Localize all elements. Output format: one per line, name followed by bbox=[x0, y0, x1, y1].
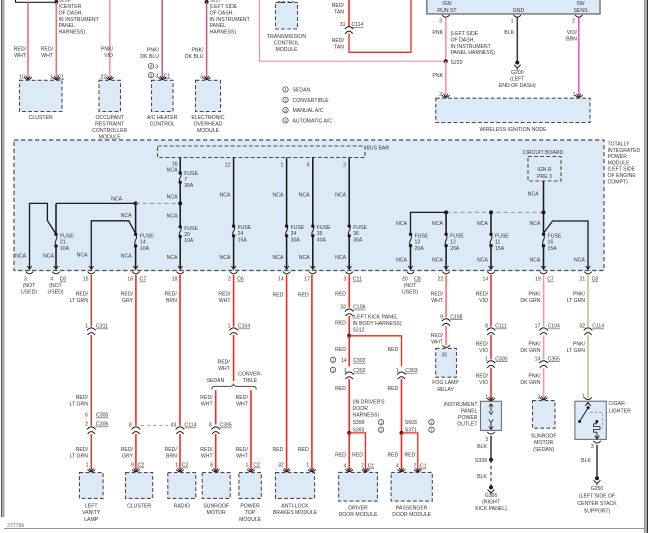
wire RED driver door pin 4 bbox=[348, 433, 350, 471]
wire fuse 12 down bbox=[445, 246, 447, 269]
wire BLK cigar lighter to ground bbox=[596, 445, 598, 477]
svg-text:DK BLU: DK BLU bbox=[185, 54, 204, 60]
cigar lighter link dashed bbox=[590, 412, 603, 428]
svg-text:2: 2 bbox=[228, 277, 231, 283]
svg-text:GRY: GRY bbox=[122, 298, 134, 304]
legend 3 MANUAL A/C bbox=[283, 107, 288, 112]
svg-text:3: 3 bbox=[439, 19, 442, 25]
svg-text:PNK: PNK bbox=[432, 30, 443, 36]
svg-text:9: 9 bbox=[440, 314, 443, 320]
wire RED/WHT to cluster pin 10 bbox=[27, 2, 29, 78]
wire BLK dashed to ground bbox=[490, 460, 492, 486]
svg-text:SUNROOF: SUNROOF bbox=[531, 434, 557, 440]
splice S230 bbox=[54, 0, 58, 4]
svg-text:NCA: NCA bbox=[477, 257, 488, 263]
svg-text:VIO: VIO bbox=[479, 348, 488, 354]
svg-text:LEFT: LEFT bbox=[85, 504, 98, 510]
svg-text:13: 13 bbox=[415, 240, 421, 246]
fuse F11 15A bbox=[489, 233, 492, 236]
svg-text:1: 1 bbox=[281, 162, 284, 168]
svg-text:20: 20 bbox=[402, 277, 408, 283]
svg-text:PNK/: PNK/ bbox=[101, 47, 114, 53]
TIPM pin 16 C7 bbox=[132, 272, 140, 274]
wire bus bar to fuse 36 bbox=[348, 158, 350, 226]
svg-text:9: 9 bbox=[131, 463, 134, 469]
relay FOG LAMP RELAY bbox=[436, 348, 457, 377]
svg-text:SUNROOF: SUNROOF bbox=[203, 504, 229, 510]
svg-text:3: 3 bbox=[439, 92, 442, 98]
split brace sedan/convertible bbox=[212, 384, 257, 390]
svg-text:C300: C300 bbox=[495, 356, 507, 362]
svg-text:3: 3 bbox=[155, 64, 158, 70]
svg-text:(LEFT KICK PANEL: (LEFT KICK PANEL bbox=[353, 314, 399, 320]
svg-text:C355: C355 bbox=[548, 356, 560, 362]
svg-text:TAN: TAN bbox=[334, 10, 344, 16]
svg-text:NCA: NCA bbox=[273, 255, 284, 261]
ground G306 bbox=[489, 485, 493, 489]
wire VIO/BRN to WIN pin 1 bbox=[578, 18, 580, 97]
svg-text:14: 14 bbox=[482, 277, 488, 283]
svg-text:C111: C111 bbox=[495, 324, 507, 330]
svg-text:PANEL: PANEL bbox=[461, 409, 478, 415]
svg-text:C1: C1 bbox=[420, 464, 427, 470]
svg-text:2: 2 bbox=[343, 162, 346, 168]
svg-text:1: 1 bbox=[573, 92, 576, 98]
svg-text:NCA: NCA bbox=[15, 253, 26, 259]
wire fuse 21 to pin 4 bbox=[55, 246, 57, 269]
svg-text:1: 1 bbox=[246, 463, 249, 469]
svg-text:RED: RED bbox=[352, 453, 363, 459]
module ELECTRONIC OVERHEAD MODULE bbox=[196, 80, 221, 111]
wire bus bar to fuse 34 bbox=[286, 158, 288, 226]
svg-text:SW: SW bbox=[576, 1, 584, 7]
svg-text:NCA: NCA bbox=[121, 253, 132, 259]
splice S220 bbox=[444, 59, 448, 63]
svg-text:USED): USED) bbox=[48, 290, 64, 296]
svg-text:PRE 3: PRE 3 bbox=[537, 174, 552, 180]
svg-text:(CENTER: (CENTER bbox=[59, 4, 82, 10]
pin 3 automatic a/c bbox=[148, 63, 153, 68]
svg-text:WIRELESS IGNITION NODE: WIRELESS IGNITION NODE bbox=[479, 127, 547, 133]
module CIGAR LIGHTER bbox=[575, 401, 606, 439]
svg-text:C7: C7 bbox=[547, 277, 554, 283]
svg-text:C302: C302 bbox=[353, 368, 365, 374]
svg-text:CONVER-: CONVER- bbox=[238, 372, 262, 378]
svg-text:3: 3 bbox=[485, 437, 488, 443]
svg-text:WHT: WHT bbox=[14, 53, 27, 59]
svg-text:RED/: RED/ bbox=[121, 447, 134, 453]
svg-text:RED: RED bbox=[298, 447, 309, 453]
svg-text:1: 1 bbox=[86, 463, 89, 469]
svg-text:WHT: WHT bbox=[219, 298, 232, 304]
power outlet contacts bbox=[490, 405, 492, 412]
svg-text:RED: RED bbox=[335, 347, 346, 353]
svg-text:6: 6 bbox=[307, 162, 310, 168]
wire fuse 11 down bbox=[490, 246, 492, 269]
svg-text:TAN: TAN bbox=[334, 45, 344, 51]
svg-text:40A: 40A bbox=[317, 237, 327, 243]
svg-text:RED: RED bbox=[273, 447, 284, 453]
svg-text:1: 1 bbox=[306, 463, 309, 469]
wire RED/GRY from pin 16 bbox=[135, 275, 137, 426]
wire RED/WHT from pin 22 bbox=[445, 275, 447, 318]
svg-text:14: 14 bbox=[278, 277, 284, 283]
svg-text:DRIVER: DRIVER bbox=[348, 505, 368, 511]
svg-text:DK BLU: DK BLU bbox=[140, 54, 159, 60]
svg-text:TIBLE: TIBLE bbox=[243, 378, 258, 384]
svg-text:20A: 20A bbox=[415, 246, 425, 252]
svg-text:4: 4 bbox=[50, 277, 53, 283]
svg-text:4: 4 bbox=[396, 464, 399, 470]
svg-text:1: 1 bbox=[85, 324, 88, 330]
svg-text:(LEFT: (LEFT bbox=[510, 76, 525, 82]
module TOTALLY INTEGRATED POWER MODULE bbox=[14, 140, 604, 271]
TIPM pin 19 C7 bbox=[540, 272, 548, 274]
svg-text:RED/: RED/ bbox=[76, 447, 89, 453]
svg-text:G306: G306 bbox=[485, 493, 498, 499]
svg-text:NCA: NCA bbox=[273, 193, 284, 199]
svg-text:WHT: WHT bbox=[201, 401, 214, 407]
svg-text:3: 3 bbox=[591, 444, 594, 450]
svg-text:10A: 10A bbox=[60, 246, 70, 252]
svg-text:INTEGRATED: INTEGRATED bbox=[608, 148, 641, 154]
node junction dot fuse 20 bbox=[178, 201, 182, 205]
wire fuse 16 to pin 19 bbox=[543, 246, 545, 269]
relay IGN R PRE 3 bbox=[528, 157, 561, 182]
svg-text:10A: 10A bbox=[184, 238, 194, 244]
svg-text:NCA: NCA bbox=[528, 191, 539, 197]
svg-text:NCA: NCA bbox=[529, 221, 540, 227]
svg-text:8: 8 bbox=[129, 423, 132, 429]
svg-text:C114: C114 bbox=[352, 22, 364, 28]
svg-text:RED/: RED/ bbox=[332, 3, 345, 9]
svg-text:32: 32 bbox=[278, 463, 284, 469]
svg-text:(SEDAN): (SEDAN) bbox=[533, 447, 554, 453]
svg-text:IGN: IGN bbox=[442, 1, 451, 7]
svg-text:NCA: NCA bbox=[121, 213, 132, 219]
svg-text:G200: G200 bbox=[511, 70, 524, 76]
svg-text:PNK/: PNK/ bbox=[147, 48, 160, 54]
wire RED/LT GRN bbox=[90, 335, 92, 426]
svg-text:A/C HEATER: A/C HEATER bbox=[147, 115, 178, 121]
wire RED/WHT from pin 2 C6 bbox=[233, 275, 235, 327]
pin 3 C1 manual a/c bbox=[148, 73, 153, 78]
svg-text:RED: RED bbox=[404, 453, 415, 459]
svg-text:20A: 20A bbox=[450, 246, 460, 252]
TIPM pin 14 bbox=[487, 272, 495, 274]
svg-text:IN INSTRUMENT: IN INSTRUMENT bbox=[451, 44, 492, 50]
wire from IGN R PRE 3 bbox=[543, 181, 545, 212]
module SUNROOF MOTOR bbox=[202, 473, 230, 499]
TIPM pin 18 bbox=[176, 272, 184, 274]
svg-text:USED): USED) bbox=[402, 290, 418, 296]
power outlet bottom exit pin 3 bbox=[487, 432, 495, 434]
svg-text:KICK PANEL): KICK PANEL) bbox=[475, 506, 507, 512]
wire fuse 24 to pin 2 bbox=[233, 236, 235, 269]
svg-text:11: 11 bbox=[495, 240, 500, 246]
svg-text:IN INSTRUMENT: IN INSTRUMENT bbox=[210, 17, 251, 23]
ground G250 bbox=[595, 476, 599, 480]
fuse F34 30A bbox=[285, 224, 288, 227]
svg-text:21: 21 bbox=[60, 240, 66, 246]
cigar lighter switch bbox=[585, 402, 591, 405]
svg-text:RED/: RED/ bbox=[218, 291, 231, 297]
dashed bus link left bbox=[136, 202, 181, 204]
svg-text:C104: C104 bbox=[548, 324, 560, 330]
svg-text:C2: C2 bbox=[182, 463, 189, 469]
wire PNK/DK GRN to sunroof motor sedan bbox=[543, 368, 545, 399]
svg-text:43: 43 bbox=[171, 423, 177, 429]
wire PNK/DK GRN from pin 19 bbox=[543, 275, 545, 327]
splice S339 bbox=[489, 458, 493, 462]
svg-text:2: 2 bbox=[572, 19, 575, 25]
connector C114 symbol bbox=[345, 27, 354, 30]
svg-text:(LEFT SIDE: (LEFT SIDE bbox=[608, 167, 636, 173]
wire fuse 34 to pin 14 bbox=[286, 236, 288, 269]
svg-text:C114: C114 bbox=[592, 324, 604, 330]
wire junction to fuse 20 bbox=[179, 203, 181, 226]
svg-text:DK GRN: DK GRN bbox=[520, 380, 540, 386]
bus bar bbox=[158, 146, 366, 158]
svg-text:LT GRN: LT GRN bbox=[70, 454, 89, 460]
svg-text:CIRCUIT BOARD: CIRCUIT BOARD bbox=[523, 150, 564, 156]
svg-text:HARNESS): HARNESS) bbox=[353, 413, 380, 419]
svg-text:C108: C108 bbox=[450, 314, 462, 320]
svg-text:4: 4 bbox=[344, 464, 347, 470]
svg-text:WHT: WHT bbox=[236, 454, 249, 460]
svg-text:(LEFT SIDE OF: (LEFT SIDE OF bbox=[579, 493, 615, 499]
svg-text:USED): USED) bbox=[21, 290, 37, 296]
wire RED/WHT to split bbox=[233, 335, 235, 381]
svg-text:SEDAN: SEDAN bbox=[207, 378, 225, 384]
wire RED driver door pin 7 bbox=[349, 433, 365, 471]
svg-text:HARNESS): HARNESS) bbox=[59, 30, 86, 36]
module OCCUPANT RESTRAINT CONTROLLER MODULE bbox=[99, 80, 121, 111]
svg-text:PNK/: PNK/ bbox=[573, 291, 586, 297]
svg-text:C303: C303 bbox=[405, 368, 417, 374]
svg-text:C2: C2 bbox=[138, 463, 145, 469]
wire RED from pin 14 to ABS pin 32 bbox=[286, 275, 288, 471]
cigar lighter bottom exit pin 3 bbox=[593, 441, 601, 443]
fuse F16 15A bbox=[542, 233, 545, 236]
svg-text:RED/: RED/ bbox=[431, 291, 444, 297]
svg-text:NCA: NCA bbox=[43, 253, 54, 259]
svg-text:S339: S339 bbox=[475, 458, 487, 464]
svg-text:14: 14 bbox=[140, 240, 146, 246]
module CLUSTER (lower) bbox=[126, 473, 153, 499]
wire BLK from gnd pin to G200 bbox=[516, 18, 518, 62]
svg-text:C311: C311 bbox=[96, 324, 108, 330]
svg-text:CONTROLLER: CONTROLLER bbox=[92, 128, 127, 134]
svg-text:(IN DRIVER'S: (IN DRIVER'S bbox=[353, 400, 386, 406]
bus dashed link right group bbox=[446, 211, 543, 213]
connector entry A/C heater control bbox=[160, 76, 165, 79]
svg-text:3: 3 bbox=[155, 74, 158, 80]
wire RED to driver splice bbox=[348, 379, 350, 433]
module SUNROOF MOTOR (SEDAN) bbox=[533, 401, 556, 429]
svg-text:RED/: RED/ bbox=[332, 38, 345, 44]
wire RED passenger door pin 4 bbox=[401, 433, 403, 471]
wire RED/TAN loop bbox=[349, 0, 411, 52]
svg-text:VIO: VIO bbox=[104, 53, 113, 59]
svg-text:1: 1 bbox=[511, 19, 514, 25]
svg-text:22: 22 bbox=[101, 75, 107, 81]
svg-text:18: 18 bbox=[172, 277, 178, 283]
svg-text:OVERHEAD: OVERHEAD bbox=[194, 121, 223, 127]
svg-text:RUN ST: RUN ST bbox=[437, 8, 457, 14]
svg-text:VIO/: VIO/ bbox=[567, 30, 578, 36]
svg-text:(NOT: (NOT bbox=[404, 283, 417, 289]
svg-text:16: 16 bbox=[127, 277, 133, 283]
svg-text:DOOR: DOOR bbox=[353, 406, 369, 412]
svg-text:RED/: RED/ bbox=[200, 447, 213, 453]
wire RED from pin 3 C11 bbox=[348, 275, 350, 308]
svg-text:30A: 30A bbox=[184, 183, 194, 189]
module RADIO bbox=[168, 473, 196, 499]
wire RED/WHT convertible branch to power top module bbox=[250, 390, 252, 471]
svg-text:CLUSTER: CLUSTER bbox=[127, 504, 151, 510]
wire fuse 16 branch to pin 21 bbox=[544, 221, 589, 269]
svg-text:MODULE: MODULE bbox=[276, 47, 299, 53]
svg-text:RED/: RED/ bbox=[76, 395, 89, 401]
svg-text:(LEFT SIDE: (LEFT SIDE bbox=[210, 4, 238, 10]
wire to pin 3 not used bbox=[30, 203, 57, 268]
svg-text:RED: RED bbox=[387, 453, 398, 459]
svg-text:RED/: RED/ bbox=[165, 447, 178, 453]
svg-text:1: 1 bbox=[485, 356, 488, 362]
svg-text:NCA: NCA bbox=[396, 257, 407, 263]
svg-text:POWER: POWER bbox=[608, 154, 628, 160]
splice S399/S392 bbox=[347, 431, 351, 435]
svg-text:LT GRN: LT GRN bbox=[567, 348, 586, 354]
wire RED/LT GRN to left vanity lamp bbox=[90, 434, 92, 471]
svg-text:BRAKES MODULE: BRAKES MODULE bbox=[273, 510, 318, 516]
svg-text:12: 12 bbox=[450, 240, 456, 246]
svg-text:20: 20 bbox=[184, 232, 190, 238]
svg-text:32: 32 bbox=[340, 305, 346, 311]
legend 1 SEDAN bbox=[283, 87, 288, 92]
svg-text:C104: C104 bbox=[238, 324, 250, 330]
svg-text:S399: S399 bbox=[353, 420, 365, 426]
svg-text:16: 16 bbox=[548, 240, 554, 246]
svg-text:14: 14 bbox=[341, 358, 347, 364]
svg-text:(RIGHT: (RIGHT bbox=[482, 499, 501, 505]
svg-text:(NOT: (NOT bbox=[23, 283, 36, 289]
connector exits ignition box bbox=[442, 15, 450, 17]
wire PNK/DK GRN bbox=[543, 335, 545, 359]
svg-text:DOOR MODULE: DOOR MODULE bbox=[392, 512, 431, 518]
svg-text:LT GRN: LT GRN bbox=[70, 298, 89, 304]
svg-text:NCA: NCA bbox=[396, 221, 407, 227]
svg-text:S312: S312 bbox=[353, 327, 365, 333]
svg-text:RED/: RED/ bbox=[476, 341, 489, 347]
svg-text:RADIO: RADIO bbox=[174, 504, 190, 510]
svg-text:DK GRN: DK GRN bbox=[520, 298, 540, 304]
svg-text:S603: S603 bbox=[405, 420, 417, 426]
svg-text:LT GRN: LT GRN bbox=[567, 298, 586, 304]
TIPM pin 2 C6 bbox=[230, 272, 238, 274]
highlight box around transmission control module bbox=[260, 0, 446, 61]
wire PNK/VIO to ORC module bbox=[109, 0, 111, 79]
svg-text:IGN R: IGN R bbox=[537, 167, 552, 173]
svg-text:NCA: NCA bbox=[111, 197, 122, 203]
svg-text:C6: C6 bbox=[237, 277, 244, 283]
wire fuse 35 to pin 17 bbox=[312, 236, 314, 269]
TIPM pin 14 bbox=[283, 272, 291, 274]
wire PNK/DK BLU to electronic overhead module bbox=[206, 2, 208, 79]
svg-text:PASSENGER: PASSENGER bbox=[396, 505, 428, 511]
svg-text:RED: RED bbox=[298, 293, 309, 299]
node junction dot fuse 14 bus bbox=[134, 201, 138, 205]
TIPM pin 4 C6 bbox=[52, 272, 60, 274]
svg-text:15A: 15A bbox=[495, 246, 505, 252]
svg-text:30A: 30A bbox=[291, 237, 301, 243]
svg-text:30A: 30A bbox=[353, 237, 363, 243]
svg-text:C306: C306 bbox=[96, 422, 108, 428]
svg-text:RED/: RED/ bbox=[236, 395, 249, 401]
svg-text:PNK/: PNK/ bbox=[528, 291, 541, 297]
svg-text:RED: RED bbox=[335, 386, 346, 392]
svg-text:CLUSTER: CLUSTER bbox=[29, 115, 53, 121]
svg-text:MANUAL A/C: MANUAL A/C bbox=[293, 108, 324, 114]
svg-text:FOG LAMP: FOG LAMP bbox=[432, 380, 459, 386]
TIPM pin 21 C8 bbox=[584, 272, 592, 274]
fuse F21 10A bbox=[54, 233, 57, 236]
fuse F13 20A bbox=[409, 233, 412, 236]
connector entries cluster bbox=[26, 76, 31, 79]
svg-text:RED/: RED/ bbox=[165, 291, 178, 297]
svg-text:CENTER STACK: CENTER STACK bbox=[577, 501, 617, 507]
wire fuse 7 to junction bbox=[179, 182, 181, 203]
svg-text:NCA: NCA bbox=[299, 255, 310, 261]
svg-text:CIGAR: CIGAR bbox=[609, 401, 626, 407]
svg-text:COMPT): COMPT) bbox=[608, 179, 629, 185]
left page border bbox=[1, 0, 2, 517]
svg-text:(NOT: (NOT bbox=[49, 283, 62, 289]
svg-text:8: 8 bbox=[209, 423, 212, 429]
svg-text:C106: C106 bbox=[353, 305, 365, 311]
svg-text:NCA: NCA bbox=[477, 221, 488, 227]
svg-text:24: 24 bbox=[238, 231, 244, 237]
wire RED/VIO from pin 14 bbox=[490, 275, 492, 327]
svg-text:NCA: NCA bbox=[167, 255, 178, 261]
wire fuse 13 to pin 20 bbox=[410, 246, 412, 269]
svg-text:RED: RED bbox=[335, 453, 346, 459]
svg-text:NCA: NCA bbox=[432, 221, 443, 227]
svg-text:15: 15 bbox=[83, 277, 89, 283]
wire bus to fuse 14 bbox=[135, 203, 137, 233]
svg-text:ANTI-LOCK: ANTI-LOCK bbox=[281, 504, 309, 510]
svg-text:NCA: NCA bbox=[220, 193, 231, 199]
connector entries WIN bbox=[444, 94, 449, 97]
wire PNK/LT GRN to cigar lighter bbox=[587, 335, 589, 398]
svg-text:NCA: NCA bbox=[529, 257, 540, 263]
svg-text:BUS BAR: BUS BAR bbox=[367, 146, 390, 152]
svg-text:1: 1 bbox=[228, 324, 231, 330]
svg-text:RED/: RED/ bbox=[14, 47, 27, 53]
svg-text:C11: C11 bbox=[353, 277, 362, 283]
svg-text:PNK/: PNK/ bbox=[528, 341, 541, 347]
wire RED/LT GRN from pin 15 bbox=[90, 275, 92, 327]
svg-text:VANITY: VANITY bbox=[82, 510, 101, 516]
svg-text:C8: C8 bbox=[414, 277, 421, 283]
svg-text:DOOR MODULE: DOOR MODULE bbox=[339, 512, 378, 518]
fuse F20 10A bbox=[179, 225, 182, 228]
svg-text:C114: C114 bbox=[184, 423, 196, 429]
node junction dots right bus bbox=[444, 210, 448, 214]
svg-text:1: 1 bbox=[485, 395, 488, 401]
bus segment to fuse 21 and fuse 14 bbox=[56, 202, 136, 204]
